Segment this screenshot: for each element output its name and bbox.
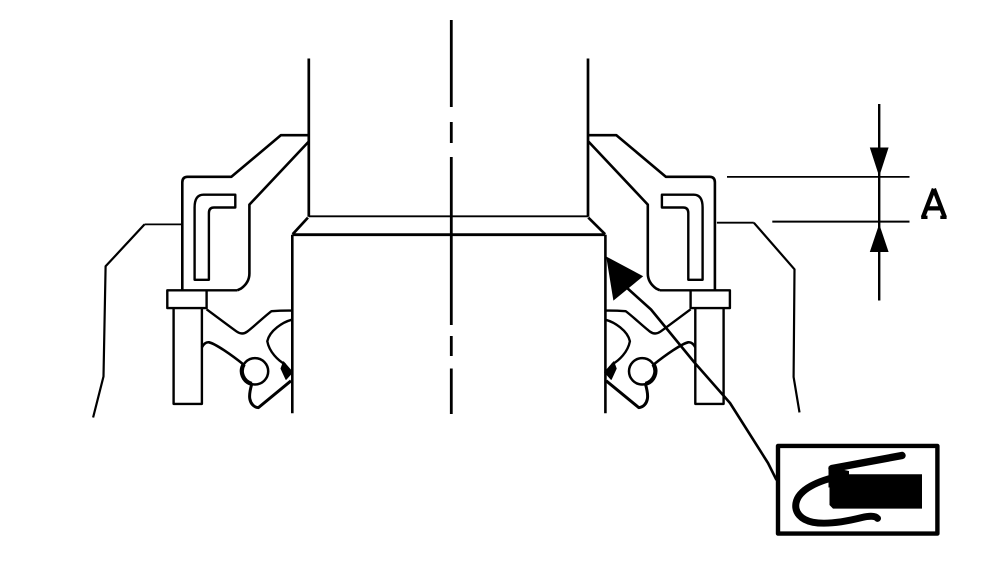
spring heavy arc left	[242, 364, 252, 384]
grease blob	[830, 469, 923, 509]
shaft step top line	[309, 215, 588, 217]
seal lower lip line right	[654, 342, 696, 364]
seal fishhook lip left	[250, 381, 291, 408]
seal dust lip hook left	[267, 320, 291, 365]
grease tail stroke	[832, 456, 902, 469]
shaft lower right edge	[604, 235, 607, 414]
right seal group (mirrored)	[588, 135, 730, 407]
seal fishhook lip right	[606, 381, 647, 408]
seal spring channel left	[195, 195, 236, 280]
seal upper lip line right	[606, 309, 691, 333]
seal outer case profile left	[182, 135, 308, 290]
extension line lower	[772, 221, 909, 223]
seal lower lip line left	[202, 342, 244, 364]
seal upper lip line left	[207, 309, 292, 333]
extension line upper	[727, 176, 910, 178]
seal outer case profile right	[588, 135, 715, 290]
dimension line vertical	[878, 104, 880, 301]
grease symbol box	[778, 446, 937, 534]
shaft lower left edge	[291, 235, 294, 414]
seal foot flange left	[167, 290, 237, 308]
garter spring left	[242, 358, 268, 384]
dimension label A	[921, 189, 946, 218]
shaft upper right edge	[587, 59, 590, 217]
seal leg right	[695, 308, 723, 404]
dimension arrow up	[870, 224, 889, 252]
seal dust lip hook right	[606, 320, 630, 365]
grease junction mass	[829, 467, 850, 488]
shaft step lower edge	[292, 233, 605, 236]
leader arrowhead	[606, 257, 643, 301]
seal foot flange right	[660, 290, 730, 308]
grease hook stroke	[796, 476, 878, 524]
seal leg left	[174, 308, 202, 404]
left housing face line	[145, 223, 182, 225]
left housing outer edge	[93, 224, 144, 417]
centerline dash-dot	[450, 20, 453, 414]
shaft step right chamfer	[588, 218, 605, 235]
seal inner case slant left	[237, 142, 308, 291]
seal dust lip tip left	[281, 362, 293, 380]
shaft upper left edge	[307, 59, 310, 217]
garter spring right	[629, 358, 655, 384]
seal dust lip tip right	[605, 362, 617, 380]
seal inner case slant right	[588, 142, 660, 291]
seal spring channel right	[662, 195, 703, 280]
dimension arrow down	[870, 148, 889, 177]
left seal group	[167, 135, 308, 407]
spring heavy arc right	[645, 364, 655, 384]
leader line	[626, 287, 777, 480]
right housing face line	[717, 222, 754, 224]
right housing outer edge	[754, 223, 800, 413]
shaft step left chamfer	[293, 218, 308, 235]
